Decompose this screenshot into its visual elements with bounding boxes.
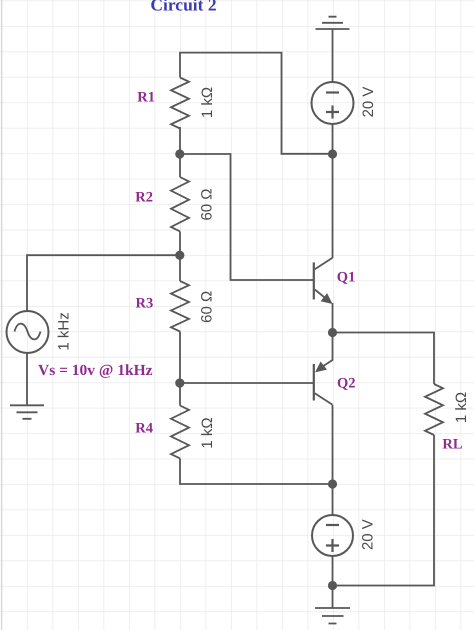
ground bottom	[315, 608, 350, 624]
wire Q2 collector to node D	[332, 405, 334, 484]
transistor Q1	[313, 262, 315, 299]
wire RL bottom to node F	[333, 435, 435, 586]
resistor RL	[425, 384, 443, 435]
sine wave	[15, 324, 41, 340]
svg-text:1 kHz: 1 kHz	[55, 312, 72, 350]
svg-text:60 Ω: 60 Ω	[198, 291, 215, 323]
Q1 emitter arrowhead	[321, 293, 333, 304]
AC source Vs circle	[7, 311, 49, 353]
wire R2 bottom lead	[179, 232, 181, 256]
wire R3 top lead	[179, 255, 181, 281]
wire node E to RL top	[333, 333, 435, 385]
wire R4 top lead	[179, 383, 181, 406]
node E junction	[328, 328, 337, 337]
wire ground to V1	[332, 29, 334, 82]
svg-text:60 Ω: 60 Ω	[199, 188, 216, 220]
source V1 circle	[312, 82, 354, 124]
resistor R4	[171, 406, 189, 459]
svg-text:1 kΩ: 1 kΩ	[199, 417, 216, 448]
wire node A to Q1 base	[180, 154, 313, 280]
source V2 circle	[312, 515, 353, 556]
node C junction	[175, 378, 184, 387]
svg-text:R2: R2	[135, 190, 153, 206]
resistor R2	[171, 177, 189, 231]
ground top	[316, 17, 350, 29]
node F junction	[328, 581, 337, 590]
node A2 junction	[328, 149, 337, 158]
wire node D to V2	[332, 484, 334, 515]
svg-text:1 kΩ: 1 kΩ	[453, 392, 470, 423]
svg-text:1 kΩ: 1 kΩ	[199, 87, 216, 118]
wire V2 to node F	[332, 556, 334, 586]
resistor R1	[171, 78, 189, 129]
wire R1 top to V1 node	[180, 53, 333, 154]
resistor R3	[171, 281, 189, 332]
V1 plus	[326, 106, 339, 119]
wire V1 to node A2	[332, 124, 334, 154]
ground left	[10, 405, 44, 419]
left border grid line	[1, 0, 3, 630]
wire node E to Q2 emitter	[318, 333, 333, 370]
wire node C to Q2 base	[180, 382, 313, 384]
V1 minus	[326, 91, 339, 93]
svg-text:Q1: Q1	[337, 270, 356, 286]
svg-text:Q2: Q2	[337, 375, 356, 391]
wire node B to AC source	[27, 255, 180, 311]
svg-text:R3: R3	[136, 295, 154, 311]
svg-text:20 V: 20 V	[360, 87, 377, 118]
wire R2 top lead	[179, 154, 181, 177]
wire R4 bottom to node D	[180, 459, 333, 485]
node D junction	[328, 479, 337, 488]
svg-text:20 V: 20 V	[360, 519, 377, 550]
wire node F to ground	[332, 586, 334, 609]
svg-text:R4: R4	[135, 421, 153, 437]
wire node A2 to Q1 collector	[332, 154, 334, 258]
node B junction	[175, 251, 184, 260]
svg-text:RL: RL	[442, 436, 462, 452]
V2 minus	[326, 524, 339, 526]
svg-text:Circuit 2: Circuit 2	[150, 0, 216, 14]
wire R3 bottom lead	[179, 332, 181, 384]
node A junction	[175, 149, 184, 158]
wire R1 bottom	[179, 127, 181, 154]
svg-text:R1: R1	[137, 90, 155, 106]
transistor Q2	[313, 364, 315, 401]
wire Q1 emitter to node E	[332, 303, 334, 333]
V2 plus	[326, 539, 339, 552]
Q2 emitter arrowhead	[315, 362, 327, 373]
wire AC to ground	[26, 353, 28, 405]
svg-text:Vs = 10v @ 1kHz: Vs = 10v @ 1kHz	[38, 362, 153, 379]
